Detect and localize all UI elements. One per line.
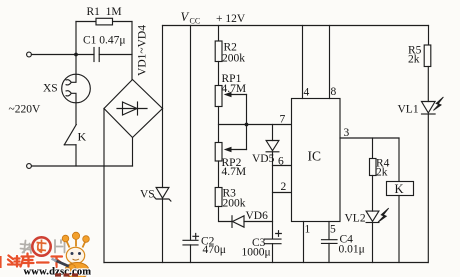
watermark: left edge red sliver	[0, 256, 2, 268]
zener diode VS	[154, 188, 171, 202]
capacitor C3	[265, 231, 282, 244]
wire: RP1 to RP2 through pin7 row	[218, 107, 220, 143]
svg-text:VL2: VL2	[345, 213, 366, 225]
wire: R1 row horizontal	[76, 21, 132, 23]
wire: C2 to ground rail	[190, 245, 192, 263]
svg-text:1000μ: 1000μ	[242, 247, 271, 259]
wire: C1 right plate to right riser	[99, 54, 132, 56]
svg-text:470μ: 470μ	[203, 244, 226, 256]
svg-text:K: K	[78, 130, 87, 144]
svg-text:CC: CC	[190, 17, 201, 26]
potentiometer RP2	[215, 143, 246, 162]
wire: pin3 row down to relay K	[398, 138, 400, 182]
wire: C3 to ground rail	[272, 244, 274, 263]
relay coil K	[387, 182, 414, 196]
resistor R5	[424, 45, 431, 67]
wire: R5 to VL1	[427, 67, 429, 102]
node: wiper junction dot	[245, 123, 249, 127]
terminal: upper AC input	[27, 52, 32, 57]
svg-text:7: 7	[280, 114, 286, 126]
switch K	[64, 125, 76, 167]
wire: VCC +12V rail	[163, 25, 429, 27]
svg-text:6: 6	[278, 156, 284, 168]
svg-text:200k: 200k	[222, 53, 245, 65]
LED VL2	[366, 208, 389, 222]
wire: VL2 to ground rail	[372, 223, 374, 263]
svg-text:2k: 2k	[408, 54, 420, 66]
svg-text:1: 1	[305, 224, 311, 236]
svg-text:K: K	[395, 182, 404, 196]
svg-text:VL1: VL1	[398, 104, 419, 116]
wire: RP2 to R3	[218, 161, 220, 188]
wire: ground rail	[104, 262, 428, 264]
wire: bridge left vertex (DC-) down to ground rail	[103, 109, 105, 263]
wire: lower AC row to bridge bottom riser	[32, 165, 133, 167]
svg-text:VS: VS	[140, 189, 155, 201]
wire: pin 3 row	[340, 137, 399, 139]
wire: pin 5 to C4	[328, 222, 330, 240]
watermark: grey character 2	[55, 240, 65, 253]
wire: VCC rail to R2	[218, 26, 220, 42]
socket XS	[62, 74, 91, 103]
wire: VD5 down through pin6/pin2 rows to C3	[272, 152, 274, 239]
svg-text:+ 12V: + 12V	[216, 13, 246, 25]
diode VD5	[266, 141, 279, 152]
wire: pin 8 to VCC rail	[329, 26, 331, 99]
wire: pin7 row down to VD5	[272, 125, 274, 141]
wire: RP1/RP2 wiper tie line	[246, 95, 248, 150]
bridge rectifier VD1~VD4	[104, 80, 163, 138]
svg-text:~220V: ~220V	[9, 104, 41, 116]
diode VD6	[232, 216, 244, 228]
svg-text:VD1~VD4: VD1~VD4	[137, 25, 149, 76]
wire: R3 down and right to VD6	[219, 207, 232, 222]
LED VL1	[422, 97, 444, 114]
wire: C2 branch from VCC rail	[190, 26, 192, 241]
svg-text:200k: 200k	[223, 198, 246, 210]
node A (junction dot)	[74, 53, 78, 57]
wire: riser node A up to R1 row	[75, 22, 77, 55]
wire: R4 to VL2	[372, 176, 374, 212]
resistor R3	[215, 188, 222, 207]
resistor R1	[96, 18, 113, 25]
svg-text:2: 2	[281, 181, 287, 193]
wire: pin3 row down to R4	[372, 138, 374, 159]
svg-text:R1 1M: R1 1M	[87, 6, 122, 18]
wire: VL1 to ground rail	[427, 114, 429, 263]
wire: pin 1 to ground rail	[303, 222, 305, 263]
svg-text:5: 5	[330, 224, 336, 236]
capacitor C1	[94, 48, 99, 62]
svg-text:C1 0.47μ: C1 0.47μ	[83, 35, 126, 47]
watermark: red ring with ornament	[32, 237, 50, 255]
wire: node A down to socket XS	[75, 55, 77, 75]
terminal: lower AC input	[27, 164, 32, 169]
capacitor C2	[183, 234, 199, 245]
wire: XS bottom to switch K	[75, 103, 77, 125]
watermark: grey character 1	[21, 241, 32, 254]
potentiometer RP1	[215, 86, 246, 107]
svg-text:2k: 2k	[376, 167, 388, 179]
watermark: dark red bottom fragment	[55, 273, 78, 276]
wire: pin 4 to VCC rail	[302, 26, 304, 99]
wire: pin 7 row	[219, 124, 292, 126]
watermark: mascot	[52, 232, 90, 277]
op-amp/timer IC	[292, 99, 341, 222]
svg-text:0.01μ: 0.01μ	[339, 244, 365, 256]
wire: riser to bridge bottom vertex	[132, 138, 134, 167]
svg-text:VD5: VD5	[252, 153, 275, 165]
wire: bridge right vertex down to zener VS	[162, 109, 164, 188]
svg-text:4.7M: 4.7M	[222, 166, 247, 178]
svg-text:VD6: VD6	[246, 210, 269, 222]
wire: right riser down to bridge top vertex	[131, 22, 133, 80]
wire: node A to C1 left plate	[76, 54, 94, 56]
svg-text:4: 4	[304, 87, 310, 99]
wire: bridge right vertex (DC+) up to VCC rail	[162, 26, 164, 109]
svg-text:8: 8	[331, 86, 337, 98]
wire: upper AC input to node A	[32, 54, 77, 56]
svg-text:4.7M: 4.7M	[222, 83, 247, 95]
wire: pin 2 stub	[273, 192, 292, 194]
svg-text:3: 3	[344, 127, 350, 139]
svg-text:XS: XS	[43, 83, 58, 95]
watermark: red text 维库一下 (stylized)	[8, 254, 62, 268]
wire: VD6 to pin2 branch line	[244, 221, 273, 223]
wire: VCC rail right end down to R5	[428, 26, 430, 46]
wire: relay K to ground rail	[398, 196, 400, 263]
wire: VS to ground rail	[162, 199, 164, 263]
capacitor C4	[322, 240, 338, 244]
wire: pin 6 stub	[273, 165, 292, 167]
svg-text:IC: IC	[308, 149, 322, 164]
resistor R2	[215, 41, 222, 62]
wire: C4 to ground rail	[328, 243, 330, 262]
resistor R4	[370, 159, 377, 176]
wire: R2 to RP1	[218, 62, 220, 86]
